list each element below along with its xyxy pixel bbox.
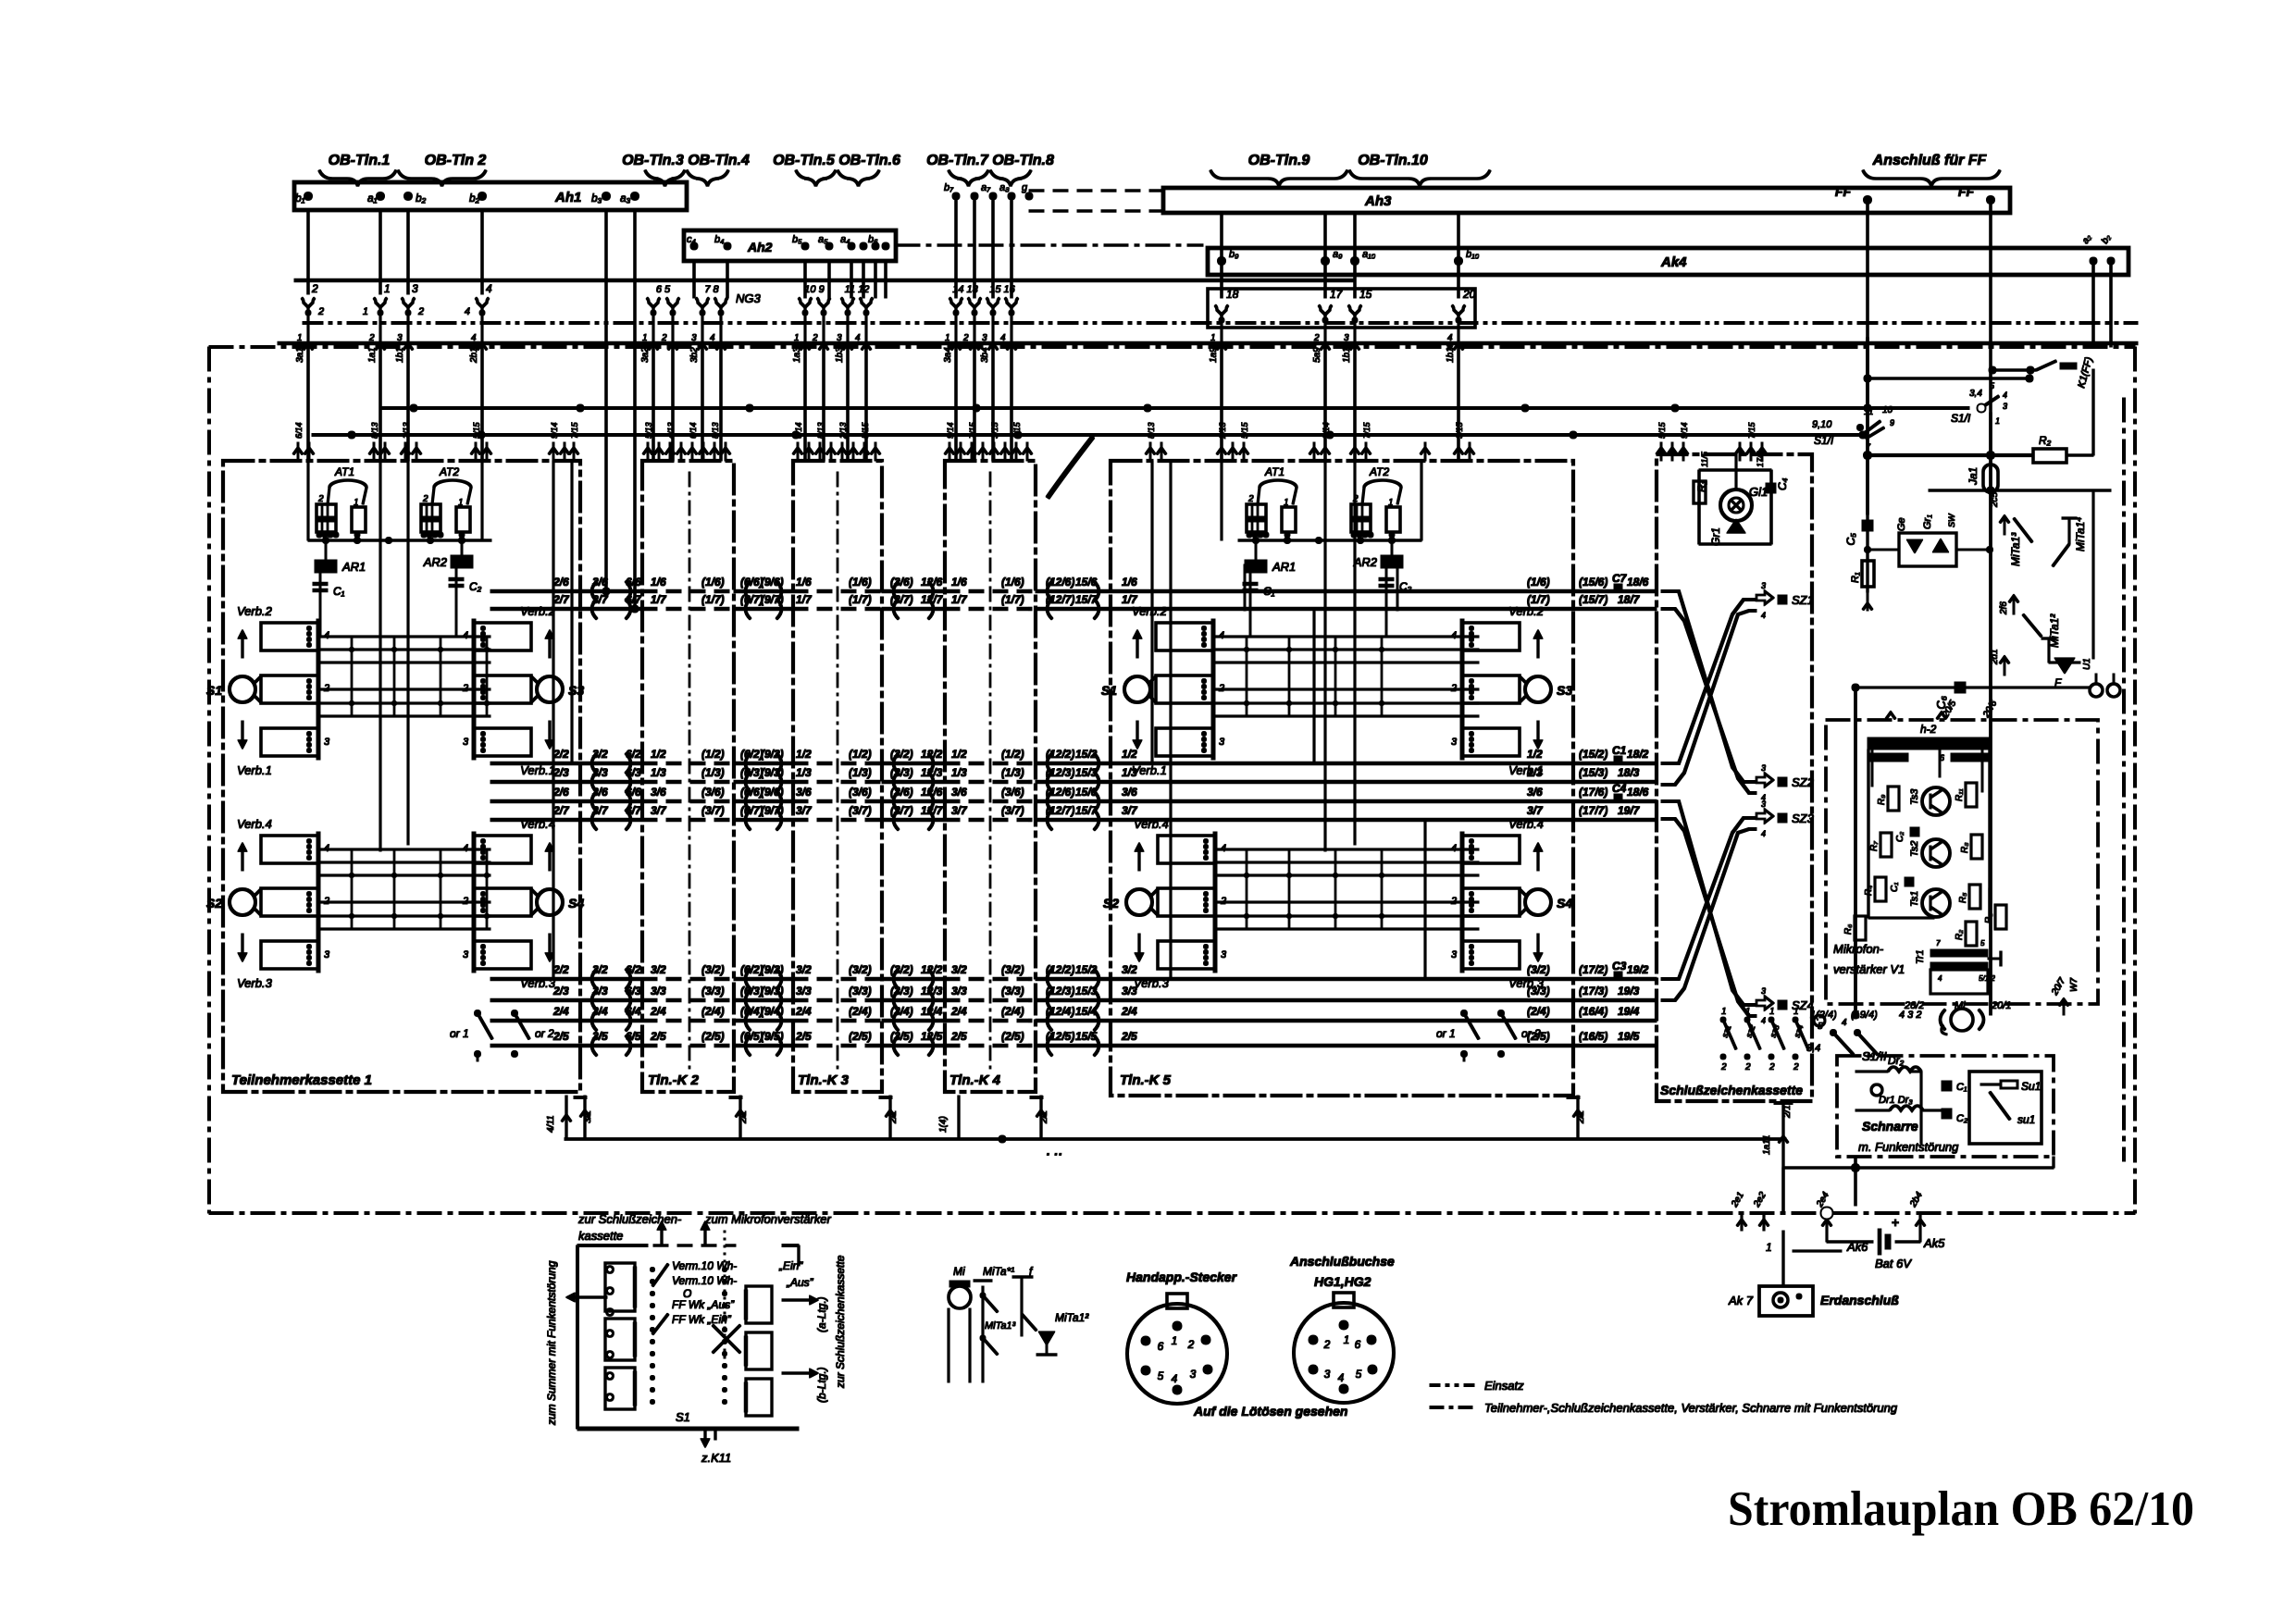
svg-text:1/7: 1/7 [651, 593, 667, 606]
svg-text:4: 4 [855, 333, 861, 343]
svg-text:Verm.10 Wh-: Verm.10 Wh- [672, 1259, 737, 1272]
svg-text:1/6: 1/6 [1122, 576, 1137, 588]
svg-text:3: 3 [1761, 799, 1766, 809]
svg-text:4: 4 [1761, 1016, 1766, 1025]
svg-text:(3/7): (3/7) [701, 804, 725, 817]
svg-text:Einsatz: Einsatz [1484, 1379, 1524, 1393]
svg-text:(1/6): (1/6) [1527, 576, 1550, 588]
svg-text:5/15: 5/15 [472, 421, 481, 439]
svg-text:2: 2 [1187, 1338, 1195, 1351]
svg-text:9/14: 9/14 [550, 422, 559, 439]
svg-text:Ak6: Ak6 [1846, 1240, 1868, 1254]
svg-text:(1/2): (1/2) [849, 748, 872, 761]
svg-text:S4: S4 [568, 896, 584, 911]
svg-text:3/3: 3/3 [592, 766, 608, 779]
svg-text:3/6: 3/6 [1122, 786, 1137, 799]
svg-text:Tln.-K 2: Tln.-K 2 [648, 1072, 700, 1088]
svg-text:SW: SW [1947, 513, 1956, 527]
svg-text:6/6: 6/6 [626, 576, 641, 588]
svg-text:5: 5 [1356, 1368, 1362, 1381]
svg-text:2: 2 [1313, 333, 1320, 343]
svg-text:2: 2 [1744, 1062, 1751, 1072]
svg-text:3/15: 3/15 [1455, 421, 1464, 439]
svg-text:C₁: C₁ [333, 585, 345, 598]
svg-text:Anschluß für FF: Anschluß für FF [1872, 153, 1988, 168]
svg-text:(3/3): (3/3) [890, 985, 913, 997]
svg-text:„Aus”: „Aus” [786, 1276, 814, 1289]
svg-text:S1/I: S1/I [1951, 412, 1971, 425]
svg-text:1: 1 [1344, 1333, 1350, 1346]
svg-text:3: 3 [397, 333, 403, 343]
svg-text:3/3: 3/3 [592, 985, 608, 997]
svg-text:1/2: 1/2 [951, 748, 967, 761]
svg-text:(3/5): (3/5) [890, 1030, 913, 1043]
svg-text:2: 2 [317, 306, 324, 317]
svg-text:(9/2): (9/2) [761, 748, 784, 761]
svg-text:3/3: 3/3 [951, 985, 967, 997]
svg-text:HG1,HG2: HG1,HG2 [1314, 1274, 1371, 1289]
svg-text:1a1: 1a1 [367, 347, 378, 363]
svg-text:(9/4): (9/4) [761, 1005, 784, 1018]
svg-text:3: 3 [1761, 763, 1766, 773]
svg-text:19/5: 19/5 [1618, 1030, 1640, 1043]
svg-text:R₂: R₂ [1955, 930, 1965, 940]
svg-text:3/6: 3/6 [796, 786, 812, 799]
svg-text:5/15: 5/15 [861, 421, 870, 439]
svg-text:2/6: 2/6 [552, 786, 569, 799]
svg-text:12/7: 12/7 [921, 804, 944, 817]
svg-text:(12/3): (12/3) [1046, 766, 1074, 779]
svg-text:(3/6): (3/6) [1001, 786, 1024, 799]
svg-text:1/2: 1/2 [796, 748, 812, 761]
svg-text:(9/7): (9/7) [761, 593, 784, 606]
svg-text:(12/2): (12/2) [1046, 963, 1074, 976]
svg-text:(2/4): (2/4) [701, 1005, 725, 1018]
svg-text:(3/2): (3/2) [890, 748, 913, 761]
svg-text:2/5: 2/5 [1121, 1030, 1137, 1043]
svg-text:Su1: Su1 [2021, 1080, 2041, 1093]
svg-text:1b10: 1b10 [1342, 341, 1352, 363]
svg-text:15/2: 15/2 [1075, 748, 1098, 761]
svg-text:2: 2 [311, 282, 318, 295]
svg-text:6/5: 6/5 [626, 1030, 641, 1043]
svg-text:C₂: C₂ [1895, 832, 1905, 842]
svg-text:Verb.2: Verb.2 [520, 604, 556, 618]
svg-text:15/6: 15/6 [1075, 786, 1098, 799]
svg-text:zum Mikrofonverstärker: zum Mikrofonverstärker [704, 1212, 831, 1226]
svg-text:Gl1: Gl1 [1749, 485, 1768, 499]
svg-text:1/3: 1/3 [796, 766, 812, 779]
svg-text:1b3: 1b3 [835, 347, 845, 363]
svg-text:6: 6 [1355, 1338, 1361, 1351]
svg-text:S1: S1 [1101, 683, 1117, 698]
svg-text:9/14: 9/14 [1322, 422, 1331, 439]
svg-text:3/2: 3/2 [592, 748, 608, 761]
svg-text:(6/3): (6/3) [740, 985, 763, 997]
svg-text:3: 3 [412, 282, 418, 295]
svg-text:OB-Tln.1: OB-Tln.1 [329, 153, 391, 168]
svg-text:3/7: 3/7 [592, 804, 609, 817]
svg-text:12/7: 12/7 [921, 593, 944, 606]
svg-text:20: 20 [1462, 288, 1476, 301]
svg-text:C₁: C₁ [1263, 585, 1275, 598]
svg-text:2/5: 2/5 [552, 1030, 569, 1043]
svg-text:AR2: AR2 [1353, 555, 1378, 569]
svg-text:+: + [1892, 1215, 1899, 1230]
svg-text:Ak 7: Ak 7 [1728, 1294, 1754, 1307]
svg-text:b₂: b₂ [469, 192, 480, 204]
svg-text:(9/3): (9/3) [761, 985, 784, 997]
svg-text:15/6: 15/6 [1075, 576, 1098, 588]
svg-text:7: 7 [1936, 939, 1941, 948]
svg-text:3: 3 [2003, 402, 2007, 411]
svg-text:5a9: 5a9 [1312, 347, 1322, 363]
svg-text:(9/7): (9/7) [761, 804, 784, 817]
svg-text:8/13: 8/13 [711, 422, 720, 439]
svg-text:4: 4 [1761, 611, 1766, 620]
svg-text:(3/6): (3/6) [890, 576, 913, 588]
svg-text:S2: S2 [206, 896, 222, 911]
svg-text:2/1: 2/1 [1039, 1110, 1049, 1124]
svg-text:Verb.3: Verb.3 [237, 976, 273, 990]
svg-text:1/6: 1/6 [951, 576, 967, 588]
svg-text:Verb.4: Verb.4 [1134, 817, 1169, 831]
svg-text:b₆: b₆ [868, 234, 878, 245]
svg-text:a₃: a₃ [620, 192, 631, 204]
svg-text:6/14: 6/14 [794, 422, 803, 439]
svg-text:3: 3 [691, 333, 697, 343]
svg-text:(1/2): (1/2) [1001, 748, 1024, 761]
svg-text:3a4: 3a4 [943, 347, 953, 363]
svg-text:1: 1 [384, 282, 391, 295]
svg-text:(3/7): (3/7) [849, 804, 872, 817]
svg-text:2/4: 2/4 [1121, 1005, 1137, 1018]
svg-text:2/6: 2/6 [552, 576, 569, 588]
svg-text:Handapp.-Stecker: Handapp.-Stecker [1126, 1270, 1238, 1284]
svg-text:Verb.1: Verb.1 [1508, 763, 1544, 777]
svg-text:5: 5 [1980, 939, 1985, 948]
svg-text:Mikrofon-: Mikrofon- [1833, 942, 1884, 956]
svg-text:verstärker V1: verstärker V1 [1833, 962, 1905, 976]
svg-text:1: 1 [1210, 333, 1216, 343]
svg-text:(3/7): (3/7) [890, 593, 913, 606]
svg-text:kassette: kassette [578, 1229, 623, 1243]
svg-text:1: 1 [1745, 1007, 1751, 1017]
svg-text:2: 2 [812, 333, 818, 343]
svg-text:3/6: 3/6 [951, 786, 967, 799]
svg-text:3,4: 3,4 [1969, 389, 1982, 399]
svg-text:1(4): 1(4) [938, 1116, 949, 1133]
svg-text:3/2: 3/2 [796, 963, 812, 976]
svg-text:(12/4): (12/4) [1046, 1005, 1074, 1018]
svg-text:4: 4 [1842, 1018, 1847, 1028]
svg-text:8/13: 8/13 [816, 422, 825, 439]
svg-text:AT1: AT1 [334, 465, 354, 478]
svg-text:2: 2 [962, 333, 969, 343]
svg-text:1/3: 1/3 [951, 766, 967, 779]
svg-text:Bat 6V: Bat 6V [1875, 1257, 1912, 1270]
svg-text:2/13: 2/13 [838, 422, 848, 440]
svg-text:3/7: 3/7 [796, 804, 813, 817]
svg-text:(b-Ltg.): (b-Ltg.) [815, 1367, 828, 1403]
svg-text:or 2: or 2 [1521, 1027, 1541, 1040]
svg-text:a₈: a₈ [999, 182, 1010, 193]
svg-text:3/1: 3/1 [583, 1110, 593, 1123]
svg-text:(9/6): (9/6) [761, 576, 784, 588]
svg-text:1/2: 1/2 [1122, 748, 1137, 761]
svg-text:(2/4): (2/4) [849, 1005, 872, 1018]
svg-text:3/6: 3/6 [592, 576, 608, 588]
svg-text:2/1: 2/1 [1782, 1105, 1793, 1119]
svg-text:z.K11: z.K11 [701, 1451, 731, 1465]
svg-text:4: 4 [465, 306, 470, 317]
svg-text:3a1: 3a1 [295, 347, 305, 363]
svg-text:15 16: 15 16 [989, 284, 1015, 295]
svg-text:(a-Ltg.): (a-Ltg.) [815, 1296, 828, 1332]
svg-text:3/7: 3/7 [592, 593, 609, 606]
svg-text:2/5: 2/5 [795, 1030, 812, 1043]
svg-text:OB-Tln.5 OB-Tln.6: OB-Tln.5 OB-Tln.6 [773, 153, 900, 168]
svg-text:S1/I: S1/I [1814, 434, 1834, 447]
svg-text:SZ1: SZ1 [1792, 593, 1814, 607]
svg-text:3: 3 [1219, 737, 1225, 748]
svg-text:1: 1 [1721, 1007, 1727, 1017]
svg-text:g: g [1022, 182, 1028, 193]
svg-text:S2: S2 [1103, 896, 1119, 911]
svg-text:2/7: 2/7 [552, 804, 570, 817]
svg-text:12/6: 12/6 [921, 576, 943, 588]
svg-text:b₅: b₅ [792, 234, 802, 245]
svg-text:3: 3 [1221, 949, 1227, 960]
svg-text:3: 3 [463, 737, 469, 748]
svg-text:2d1: 2d1 [1990, 649, 2000, 665]
svg-text:2/4: 2/4 [950, 1005, 967, 1018]
svg-text:3/5: 3/5 [592, 1030, 608, 1043]
svg-text:3: 3 [982, 333, 987, 343]
svg-text:15/7: 15/7 [1075, 593, 1098, 606]
svg-text:18/6: 18/6 [1627, 576, 1649, 588]
svg-text:(3/2): (3/2) [1001, 963, 1024, 976]
svg-text:1: 1 [794, 333, 800, 343]
svg-text:c₄: c₄ [687, 234, 696, 245]
svg-text:su1: su1 [2017, 1113, 2035, 1126]
svg-text:AT2: AT2 [439, 465, 459, 478]
svg-text:MiTa1³: MiTa1³ [985, 1320, 1016, 1332]
svg-text:Ah2: Ah2 [747, 240, 773, 254]
svg-text:AT1: AT1 [1264, 465, 1285, 478]
svg-text:1b1: 1b1 [395, 347, 405, 363]
svg-text:Erdanschluß: Erdanschluß [1820, 1293, 1899, 1307]
svg-text:3/6: 3/6 [592, 786, 608, 799]
svg-text:(1/3): (1/3) [701, 766, 725, 779]
svg-text:C7: C7 [1612, 572, 1628, 585]
svg-text:1/3: 1/3 [651, 766, 666, 779]
svg-text:3b4: 3b4 [980, 347, 990, 363]
svg-text:MiTa1³: MiTa1³ [2009, 532, 2022, 566]
svg-text:3/3: 3/3 [796, 985, 812, 997]
svg-text:10: 10 [1882, 405, 1893, 415]
svg-text:Ts2: Ts2 [1909, 841, 1920, 857]
svg-text:17: 17 [1330, 288, 1344, 301]
svg-text:(12/6): (12/6) [1046, 576, 1074, 588]
svg-text:2/2: 2/2 [552, 963, 569, 976]
svg-text:R₃: R₃ [1984, 913, 1994, 923]
svg-text:2: 2 [661, 333, 667, 343]
svg-text:7 8: 7 8 [704, 284, 719, 295]
svg-text:(3/7): (3/7) [890, 804, 913, 817]
svg-text:3/2: 3/2 [651, 963, 666, 976]
svg-text:(2/4): (2/4) [1001, 1005, 1024, 1018]
svg-text:or 1: or 1 [1436, 1027, 1456, 1040]
svg-text:(6/7): (6/7) [740, 804, 763, 817]
svg-text:6/3: 6/3 [626, 766, 641, 779]
svg-text:a₁₀: a₁₀ [1362, 249, 1376, 260]
svg-text:18/7: 18/7 [1618, 593, 1641, 606]
svg-text:(6/2): (6/2) [740, 748, 763, 761]
svg-text:R₁₁: R₁₁ [1955, 788, 1965, 801]
svg-text:R₇: R₇ [1869, 841, 1880, 851]
svg-text:AT2: AT2 [1369, 465, 1389, 478]
svg-text:5: 5 [1158, 1369, 1164, 1382]
svg-text:2/4: 2/4 [552, 1005, 569, 1018]
svg-text:Verb.3: Verb.3 [1508, 976, 1545, 990]
svg-text:3a2: 3a2 [640, 347, 651, 363]
svg-text:3/2: 3/2 [951, 963, 967, 976]
svg-text:18/6: 18/6 [1627, 786, 1649, 799]
svg-text:C₅: C₅ [1844, 533, 1857, 546]
svg-text:Teilnehmer-,Schlußzeichenkasse: Teilnehmer-,Schlußzeichenkassette, Verst… [1484, 1401, 1898, 1415]
svg-text:SZ2: SZ2 [1792, 775, 1815, 789]
svg-text:3/3: 3/3 [651, 985, 666, 997]
svg-text:18/3: 18/3 [1618, 766, 1640, 779]
svg-text:(15/7): (15/7) [1579, 593, 1607, 606]
svg-text:S1: S1 [676, 1410, 690, 1424]
svg-text:(9/5): (9/5) [761, 1030, 784, 1043]
svg-text:Tln.-K 4: Tln.-K 4 [949, 1072, 1001, 1088]
svg-text:1: 1 [354, 498, 359, 508]
svg-text:3/4: 3/4 [592, 1005, 608, 1018]
svg-text:(6/5): (6/5) [740, 1030, 763, 1043]
svg-text:C₂: C₂ [1956, 1113, 1968, 1124]
svg-text:R₆: R₆ [1843, 924, 1854, 935]
svg-text:(9/3): (9/3) [761, 766, 784, 779]
svg-text:Mi: Mi [953, 1265, 965, 1278]
svg-text:R₅: R₅ [1958, 893, 1968, 903]
svg-text:FF Wk „Ein”: FF Wk „Ein” [672, 1313, 732, 1326]
svg-text:3/7: 3/7 [651, 804, 667, 817]
svg-text:(15/6): (15/6) [1579, 576, 1607, 588]
svg-text:Verb.3: Verb.3 [1134, 976, 1170, 990]
svg-text:Verb.1: Verb.1 [1132, 763, 1167, 777]
svg-text:12/2: 12/2 [921, 963, 943, 976]
svg-text:(2/5): (2/5) [701, 1030, 725, 1043]
svg-text:14 13: 14 13 [952, 284, 978, 295]
svg-text:AR1: AR1 [1272, 560, 1296, 574]
svg-text:(1/3): (1/3) [1001, 766, 1024, 779]
svg-text:15/3: 15/3 [1075, 766, 1098, 779]
svg-text:3: 3 [837, 333, 842, 343]
svg-text:(9/2): (9/2) [761, 963, 784, 976]
svg-text:3: 3 [1451, 737, 1458, 748]
svg-text:Ah3: Ah3 [1364, 193, 1392, 209]
svg-text:S3: S3 [1557, 683, 1572, 698]
svg-text:3: 3 [1324, 1368, 1331, 1381]
svg-text:6/2: 6/2 [626, 748, 641, 761]
svg-text:10 9: 10 9 [804, 284, 824, 295]
svg-text:1/2: 1/2 [1527, 748, 1543, 761]
svg-text:4: 4 [471, 333, 477, 343]
svg-text:(15/3): (15/3) [1579, 766, 1607, 779]
svg-text:1: 1 [1793, 1007, 1799, 1017]
svg-text:Auf die Lötösen gesehen: Auf die Lötösen gesehen [1193, 1404, 1347, 1419]
svg-text:2: 2 [317, 494, 324, 504]
svg-text:Ge: Ge [1896, 517, 1907, 531]
svg-text:(16/4): (16/4) [1579, 1005, 1607, 1018]
svg-text:Verb.2: Verb.2 [1508, 604, 1545, 618]
svg-text:zum Summer mit Funkentstörung: zum Summer mit Funkentstörung [545, 1260, 558, 1426]
svg-text:4: 4 [1447, 333, 1453, 343]
svg-text:Anschlußbuchse: Anschlußbuchse [1289, 1254, 1395, 1269]
svg-text:2: 2 [368, 333, 375, 343]
svg-text:C4: C4 [1612, 782, 1627, 795]
svg-text:3: 3 [1451, 949, 1458, 960]
svg-text:(6/2): (6/2) [740, 963, 763, 976]
svg-text:OB-Tln.7 OB-Tln.8: OB-Tln.7 OB-Tln.8 [926, 153, 1054, 168]
svg-text:Schnarre: Schnarre [1862, 1119, 1918, 1134]
svg-text:(12/5): (12/5) [1046, 1030, 1074, 1043]
svg-text:20/1: 20/1 [1991, 1000, 2011, 1011]
svg-text:OB-Tln.9: OB-Tln.9 [1248, 153, 1310, 168]
svg-text:Ja1: Ja1 [1967, 467, 1980, 486]
svg-text:6 5: 6 5 [656, 284, 671, 295]
svg-text:(6/6): (6/6) [740, 576, 763, 588]
svg-text:(3/2): (3/2) [849, 963, 872, 976]
svg-text:1a9: 1a9 [1209, 347, 1219, 363]
svg-text:2/1: 2/1 [1576, 1110, 1586, 1124]
svg-text:Gr1: Gr1 [1709, 527, 1722, 546]
svg-text:6/15: 6/15 [1012, 421, 1022, 439]
svg-text:S1: S1 [206, 683, 222, 698]
svg-text:(2/5): (2/5) [849, 1030, 872, 1043]
svg-text:Verm.10 Wh-: Verm.10 Wh- [672, 1274, 737, 1287]
svg-text:2: 2 [1323, 1338, 1331, 1351]
svg-text:2/4: 2/4 [650, 1005, 666, 1018]
svg-text:3/7: 3/7 [1122, 804, 1138, 817]
svg-text:MiTa1²: MiTa1² [1055, 1311, 1089, 1324]
svg-text:Dr1 Dr₃: Dr1 Dr₃ [1879, 1095, 1913, 1106]
svg-text:or 1: or 1 [450, 1027, 469, 1040]
svg-text:3/6: 3/6 [651, 786, 666, 799]
svg-text:12/4: 12/4 [921, 1005, 943, 1018]
svg-text:3/7: 3/7 [1527, 804, 1544, 817]
svg-text:Tr1: Tr1 [1915, 949, 1926, 964]
svg-text:(9/6): (9/6) [761, 786, 784, 799]
svg-text:OB-Tln.3 OB-Tln.4: OB-Tln.3 OB-Tln.4 [622, 153, 750, 168]
svg-text:1: 1 [1769, 1007, 1775, 1017]
svg-text:Verb.4: Verb.4 [237, 817, 272, 831]
svg-text:(12/7): (12/7) [1046, 593, 1074, 606]
svg-text:(1/7): (1/7) [1001, 593, 1024, 606]
svg-text:12/5: 12/5 [921, 1030, 943, 1043]
svg-text:a₉: a₉ [1333, 249, 1343, 260]
svg-text:Ts1: Ts1 [1909, 891, 1920, 907]
svg-text:6/2: 6/2 [626, 963, 641, 976]
svg-text:(2/5): (2/5) [1001, 1030, 1024, 1043]
svg-text:15/7: 15/7 [1075, 804, 1098, 817]
svg-text:2b1: 2b1 [469, 347, 479, 364]
svg-text:(17/7): (17/7) [1579, 804, 1607, 817]
svg-text:Dr₂: Dr₂ [1888, 1054, 1905, 1067]
